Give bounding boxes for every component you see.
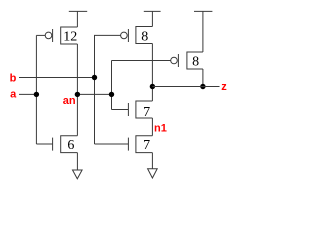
svg-text:8: 8 xyxy=(141,30,148,45)
junction on net a xyxy=(34,92,39,97)
ground symbol G1 xyxy=(73,153,83,179)
svg-text:7: 7 xyxy=(143,138,150,153)
wire net n1 segment xyxy=(151,118,153,136)
wire net an vertical riser xyxy=(111,61,113,110)
svg-text:a: a xyxy=(10,88,17,100)
nmos M5 xyxy=(128,136,152,153)
pmos M2 xyxy=(121,27,153,44)
svg-text:6: 6 xyxy=(67,138,74,153)
wire net a to M6 gate xyxy=(36,143,52,145)
wire net b to M5 gate xyxy=(95,143,129,145)
wire net an to M4 gate xyxy=(112,109,129,111)
svg-text:8: 8 xyxy=(192,55,199,70)
pmos M1 xyxy=(45,27,77,44)
vdd supply rail for M2 xyxy=(144,11,161,26)
pmos M3 xyxy=(171,52,203,69)
wire net b horizontal xyxy=(19,77,95,79)
nmos M6 xyxy=(53,136,78,153)
svg-text:z: z xyxy=(221,81,227,93)
junction on net b xyxy=(92,75,97,80)
wire M1 drain to M6 drain (inverter output) xyxy=(76,44,78,136)
wire net z horizontal xyxy=(152,86,219,88)
svg-text:7: 7 xyxy=(143,105,150,120)
svg-text:12: 12 xyxy=(63,30,77,45)
junction net z at M3 drain xyxy=(200,84,205,89)
wire net a vertical xyxy=(35,35,37,144)
wire net an horizontal xyxy=(77,93,111,95)
svg-text:n1: n1 xyxy=(154,123,167,135)
junction net z at column xyxy=(150,84,155,89)
wire net b riser to M2 gate xyxy=(95,35,121,144)
nmos M4 xyxy=(128,101,152,118)
wire M2 drain to M4 source (net z column) xyxy=(151,44,153,102)
wire net a to M1 gate bubble xyxy=(36,34,45,36)
svg-text:b: b xyxy=(10,72,17,84)
junction net an at riser xyxy=(109,92,114,97)
junction net an at inverter output xyxy=(75,92,80,97)
wire net a horizontal xyxy=(19,93,36,95)
vdd supply rail for M1 xyxy=(69,11,87,27)
vdd supply rail for M3 xyxy=(194,11,212,52)
ground symbol G2 xyxy=(148,153,158,178)
wire M3 drain to net z xyxy=(202,69,204,87)
wire net an to M3 gate bubble xyxy=(112,60,171,62)
svg-text:an: an xyxy=(63,95,76,107)
